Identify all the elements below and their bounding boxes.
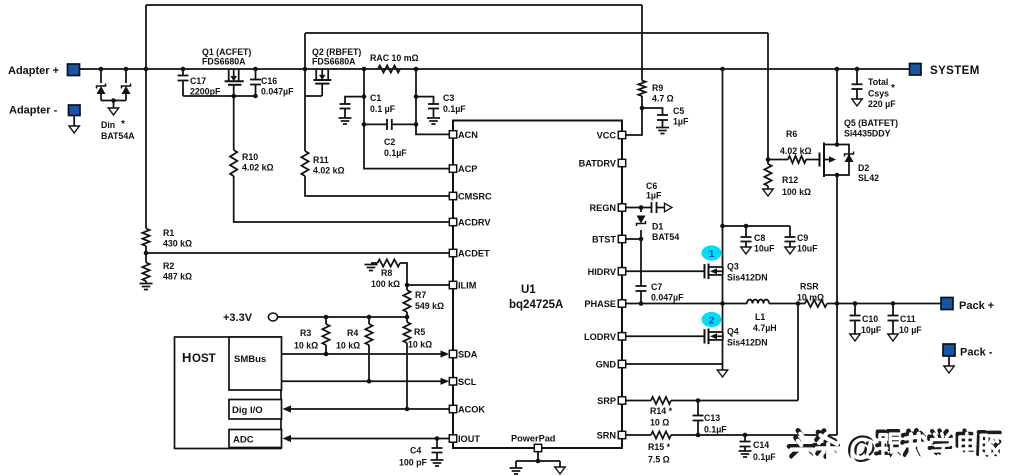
wire second top line from common-source node to R6 [305, 32, 768, 34]
svg-text:R7: R7 [415, 290, 426, 300]
block SMBus [229, 337, 282, 390]
wire main adapter rail [80, 68, 910, 70]
svg-text:SDA: SDA [458, 350, 478, 360]
pin number 2 bubble [702, 312, 722, 327]
svg-text:100 kΩ: 100 kΩ [371, 279, 400, 289]
wire RAC left sense vertical [363, 69, 365, 124]
pin REGN [618, 204, 625, 211]
wire HIDRV line [626, 270, 705, 272]
wire Q4 drain [722, 304, 724, 333]
wire R12 stub [767, 160, 769, 165]
svg-text:R6: R6 [786, 129, 797, 139]
pin HIDRV [618, 268, 625, 275]
wire SRN line [626, 434, 652, 436]
diode D2 SL42 [845, 154, 854, 162]
svg-text:ACP: ACP [458, 164, 477, 174]
wire Q5 drain from system rail [836, 69, 838, 145]
pin SRP [618, 397, 625, 404]
svg-text:SCL: SCL [458, 377, 477, 387]
wire SCL line [281, 380, 441, 382]
svg-text:Din: Din [101, 120, 115, 130]
wire RAC right sense vertical [415, 69, 417, 124]
svg-text:R5: R5 [414, 327, 425, 337]
wire vertical common-source node [304, 33, 306, 151]
wire BTST line [626, 238, 642, 240]
wire IOUT line [290, 438, 450, 440]
block HOST [175, 337, 282, 449]
svg-text:R8: R8 [381, 268, 392, 278]
svg-text:7.5 Ω: 7.5 Ω [648, 455, 670, 465]
svg-text:487 kΩ: 487 kΩ [163, 272, 192, 282]
svg-text:C9: C9 [797, 233, 808, 243]
svg-text:1: 1 [709, 248, 715, 260]
wire R6 right to Q5 gate [806, 159, 820, 161]
svg-text:C5: C5 [673, 106, 684, 116]
svg-text:0.1 µF: 0.1 µF [370, 104, 396, 114]
capacitor C4 [432, 447, 443, 449]
pin ILIM [449, 281, 456, 288]
wire VCC feed [626, 108, 643, 135]
wire C2 right [392, 123, 416, 125]
svg-text:10 µF: 10 µF [899, 325, 922, 335]
svg-text:10uF: 10uF [797, 244, 818, 254]
svg-text:549 kΩ: 549 kΩ [415, 301, 444, 311]
transistor Q3 [704, 264, 706, 278]
svg-text:IOUT: IOUT [458, 434, 480, 444]
svg-text:R2: R2 [163, 261, 174, 271]
block Dig I/O [229, 400, 282, 420]
diode D1 BAT54 [637, 216, 646, 224]
svg-text:R3: R3 [300, 328, 311, 338]
wire ACN line [416, 124, 450, 134]
svg-text:Si4435DDY: Si4435DDY [844, 129, 891, 139]
resistor R10 [230, 150, 237, 176]
pin BTST [618, 235, 625, 242]
svg-text:Q5 (BATFET): Q5 (BATFET) [844, 118, 898, 128]
svg-text:430 kΩ: 430 kΩ [163, 239, 192, 249]
wire vertical adapter-node to top line and down to R1/R2 [145, 5, 147, 229]
svg-text:OST: OST [192, 353, 216, 365]
wire Q1 gate line [183, 95, 256, 97]
svg-text:BATDRV: BATDRV [579, 159, 617, 169]
svg-text:0.047µF: 0.047µF [261, 87, 294, 97]
svg-text:10uF: 10uF [754, 244, 775, 254]
capacitor C16 [255, 69, 257, 80]
svg-text:10 kΩ: 10 kΩ [294, 341, 318, 351]
wire ILIM node to R7 to 3.3V rail [406, 285, 408, 290]
svg-text:0.1µF: 0.1µF [704, 425, 727, 435]
transistor Q4 [704, 329, 706, 343]
svg-text:4.02 kΩ: 4.02 kΩ [313, 166, 345, 176]
svg-text:10 mΩ: 10 mΩ [797, 293, 824, 303]
svg-text:C14: C14 [753, 440, 769, 450]
capacitor C2 [386, 119, 388, 130]
pin CMSRC [449, 192, 456, 199]
wire ACP line [364, 124, 450, 168]
svg-text:0.1µF: 0.1µF [384, 148, 407, 158]
wire Q3 drain vertical [722, 69, 724, 267]
svg-text:100 pF: 100 pF [399, 458, 427, 468]
resistor R5 [403, 322, 410, 343]
svg-text:@: @ [849, 432, 879, 467]
wire C14 branch [744, 435, 746, 442]
pin SCL [449, 378, 456, 385]
pin ACDRV [449, 218, 456, 225]
wire R6 left stub [768, 159, 788, 161]
capacitor C14 [740, 441, 751, 443]
svg-text:LODRV: LODRV [584, 332, 617, 342]
svg-text:4.7µH: 4.7µH [753, 323, 777, 333]
capacitor C1 [344, 103, 346, 105]
wire R3 branch [325, 317, 327, 324]
svg-text:ACDRV: ACDRV [458, 218, 491, 228]
svg-text:2200pF: 2200pF [190, 87, 221, 97]
svg-text:FDS6680A: FDS6680A [312, 57, 356, 67]
wire C2 left [364, 123, 387, 125]
svg-text:Q3: Q3 [727, 262, 739, 272]
svg-text:Adapter -: Adapter - [9, 105, 58, 117]
svg-text:U1: U1 [521, 284, 536, 296]
pin number 1 bubble [702, 245, 722, 260]
wire top feedback line from adapter node to R9/VCC [146, 4, 642, 6]
svg-text:1µF: 1µF [646, 191, 662, 201]
svg-text:Q2 (RBFET): Q2 (RBFET) [312, 47, 361, 57]
wire C8 stub [745, 226, 747, 237]
capacitor C10 [850, 315, 861, 317]
wire D1 vertical [640, 208, 642, 213]
wire R5 branch [406, 317, 408, 322]
svg-text:C16: C16 [261, 76, 277, 86]
pin IOUT [449, 435, 456, 442]
wire PHASE line [626, 303, 748, 305]
svg-text:Pack +: Pack + [959, 300, 994, 312]
capacitor C7 [636, 285, 647, 287]
wire R9 top [641, 5, 643, 81]
svg-text:C3: C3 [443, 93, 454, 103]
svg-text:0.1µF: 0.1µF [443, 104, 466, 114]
svg-text:CMSRC: CMSRC [458, 192, 492, 202]
capacitor C11 [888, 315, 899, 317]
resistor R11 [301, 151, 308, 176]
resistor R8 [378, 259, 401, 266]
wire BTST to C7 [640, 239, 642, 286]
svg-text:R15 *: R15 * [648, 442, 671, 452]
node +3.3V [268, 313, 277, 321]
svg-text:R1: R1 [163, 228, 174, 238]
capacitor C17 [182, 69, 184, 76]
resistor R12 [764, 164, 771, 186]
svg-text:R12: R12 [782, 175, 798, 185]
wire REGN line [626, 207, 652, 209]
svg-text:BAT54: BAT54 [652, 232, 679, 242]
wire R4 branch [368, 317, 370, 324]
svg-text:ACN: ACN [458, 130, 478, 140]
resistor R3 [322, 324, 329, 345]
svg-text:C8: C8 [754, 233, 765, 243]
svg-text:0.047µF: 0.047µF [651, 293, 684, 303]
wire ACOK line [290, 408, 450, 410]
wire R11 bottom to CMSRC [305, 176, 450, 196]
wire D2 loop [837, 145, 849, 176]
svg-text:R14 *: R14 * [650, 406, 673, 416]
resistor R4 [365, 324, 372, 345]
svg-text:Sis412DN: Sis412DN [727, 338, 768, 348]
terminal Adapter - [69, 105, 81, 116]
svg-text:ADC: ADC [233, 435, 254, 446]
terminal SYSTEM [910, 64, 922, 76]
svg-text:REGN: REGN [589, 203, 616, 213]
svg-text:ACDET: ACDET [458, 249, 490, 259]
svg-text:Sis412DN: Sis412DN [727, 273, 768, 283]
svg-text:D2: D2 [858, 163, 869, 173]
pin PHASE [618, 300, 625, 307]
svg-text:Q1 (ACFET): Q1 (ACFET) [202, 47, 251, 57]
svg-text:bq24725A: bq24725A [509, 299, 563, 311]
ground at R8 [365, 264, 378, 266]
wire C8 gnd stub [745, 242, 747, 248]
svg-text:Q4: Q4 [727, 327, 739, 337]
wire C6 to arrow [657, 207, 665, 209]
svg-text:Total: Total [868, 77, 888, 87]
wire C1 branch [345, 97, 364, 104]
svg-text:C10: C10 [862, 314, 878, 324]
resistor R2 [142, 263, 149, 282]
svg-text:10µF: 10µF [861, 325, 882, 335]
wire C9 stub [789, 226, 791, 237]
svg-text:10 kΩ: 10 kΩ [408, 340, 432, 350]
capacitor C3 [428, 103, 439, 105]
svg-text:SMBus: SMBus [234, 354, 266, 365]
resistor R7 [403, 290, 410, 312]
resistor R1 [142, 229, 149, 247]
resistor R6 [788, 156, 806, 163]
svg-text:220 µF: 220 µF [868, 99, 896, 109]
svg-text:ACOK: ACOK [458, 405, 485, 415]
svg-text:FDS6680A: FDS6680A [202, 57, 246, 67]
pin ACOK [449, 405, 456, 412]
svg-text:10 Ω: 10 Ω [650, 418, 669, 428]
resistor R9 [638, 81, 645, 97]
pin ACN [449, 131, 456, 138]
terminal Pack + [941, 298, 953, 310]
svg-text:C2: C2 [384, 137, 395, 147]
terminal Pack - [943, 344, 955, 356]
arrowhead SCL [441, 378, 450, 385]
svg-text:SRP: SRP [597, 396, 616, 406]
svg-text:L1: L1 [755, 312, 765, 322]
svg-text:100 kΩ: 100 kΩ [782, 187, 811, 197]
svg-text:4.7 Ω: 4.7 Ω [652, 94, 674, 104]
wire LODRV line [626, 335, 705, 337]
resistor RAC [378, 65, 400, 72]
svg-text:SL42: SL42 [858, 173, 879, 183]
capacitor Total Csys [852, 83, 863, 85]
svg-text:SYSTEM: SYSTEM [930, 65, 980, 77]
diode Din BAT54A [100, 69, 102, 83]
pin ACP [449, 165, 456, 172]
wire C9 gnd stub [789, 242, 791, 248]
svg-text:ILIM: ILIM [458, 281, 477, 291]
svg-text:R4: R4 [347, 328, 358, 338]
svg-text:C17: C17 [190, 76, 206, 86]
svg-text:PowerPad: PowerPad [511, 434, 555, 444]
svg-text:GND: GND [596, 360, 617, 370]
svg-text:VCC: VCC [597, 131, 617, 141]
pin PowerPad [534, 444, 541, 451]
svg-text:RSR: RSR [800, 282, 819, 292]
pin SRN [618, 431, 625, 438]
svg-text:Adapter +: Adapter + [8, 65, 59, 77]
wire SRP riser [797, 304, 799, 401]
svg-text:PHASE: PHASE [584, 299, 616, 309]
svg-text:4.02 kΩ: 4.02 kΩ [780, 146, 812, 156]
wire C5 branch [642, 108, 663, 115]
svg-text:4.02 kΩ: 4.02 kΩ [242, 163, 274, 173]
capacitor C9 [785, 236, 796, 238]
arrowhead ACOK [283, 405, 292, 412]
svg-text:*: * [891, 83, 895, 94]
wire C11 branch [892, 304, 894, 316]
wire C7 to phase [640, 291, 642, 304]
svg-text:*: * [121, 119, 125, 130]
wire Q3 source to phase [722, 275, 724, 304]
svg-text:BAT54A: BAT54A [101, 131, 135, 141]
capacitor C6 [651, 202, 653, 213]
wire SDA line [281, 353, 441, 355]
arrowhead SDA [441, 350, 450, 357]
wire C8/C9 rail [723, 225, 791, 227]
arrowhead IOUT [283, 435, 292, 442]
wire C4 branch [436, 439, 438, 449]
ground below R2 [140, 283, 153, 285]
terminal Adapter + [68, 64, 80, 76]
svg-text:R10: R10 [242, 152, 258, 162]
pin SDA [449, 350, 456, 357]
svg-text:H: H [182, 350, 191, 365]
ground arrow at Q4 source / GND [717, 370, 727, 377]
wire R10 chain to ACDRV [233, 96, 235, 150]
svg-text:C11: C11 [900, 314, 916, 324]
resistor R15 [651, 431, 671, 438]
wire C13 branch [697, 401, 699, 416]
pin LODRV [618, 333, 625, 340]
capacitor C5 [657, 114, 668, 116]
svg-text:Csys: Csys [868, 89, 889, 99]
svg-text:C4: C4 [410, 446, 421, 456]
ground arrow below Adapter - [73, 116, 75, 127]
block ADC [229, 430, 282, 448]
svg-text:C1: C1 [370, 93, 381, 103]
capacitor C13 [693, 415, 704, 417]
svg-text:Dig I/O: Dig I/O [232, 405, 263, 416]
pin BATDRV [618, 159, 625, 166]
wire GND line [626, 363, 723, 365]
svg-text:SRN: SRN [597, 431, 617, 441]
watermark toutiao text [789, 431, 813, 457]
pin VCC [618, 131, 625, 138]
svg-text:10 kΩ: 10 kΩ [336, 341, 360, 351]
op-amp U1 bq24725A IC body [453, 121, 622, 449]
wire Q4 source to gnd arrow [722, 340, 724, 370]
svg-text:+3.3V: +3.3V [223, 312, 253, 324]
pin ACDET [449, 249, 456, 256]
svg-text:R11: R11 [313, 155, 329, 165]
svg-text:C7: C7 [651, 282, 662, 292]
svg-text:0.1µF: 0.1µF [753, 452, 776, 462]
wire SRP line [626, 400, 652, 402]
svg-text:Pack -: Pack - [960, 347, 993, 359]
svg-text:2: 2 [709, 315, 715, 327]
wire Q5 source down to pack [836, 175, 838, 436]
wire C10 branch [854, 304, 856, 316]
svg-text:1µF: 1µF [673, 117, 689, 127]
svg-text:HIDRV: HIDRV [588, 267, 617, 277]
pin GND [618, 360, 625, 367]
svg-text:RAC 10 mΩ: RAC 10 mΩ [370, 53, 419, 63]
wire Q2 gate line [305, 95, 322, 97]
capacitor C8 [741, 236, 752, 238]
wire Csys stub [856, 69, 858, 84]
resistor R14 [651, 397, 671, 404]
inductor L1 [747, 300, 769, 304]
wire R6 node vertical [767, 33, 769, 160]
resistor RSR [805, 300, 827, 307]
svg-text:C13: C13 [704, 413, 720, 423]
wire C3 branch [416, 97, 434, 104]
svg-text:BTST: BTST [592, 235, 616, 245]
svg-text:D1: D1 [652, 222, 663, 232]
junction dots [99, 67, 104, 72]
wire +3.3V rail [278, 316, 408, 318]
wire R8 to ILIM [371, 262, 378, 264]
svg-text:C6: C6 [646, 181, 657, 191]
svg-text:R9: R9 [652, 83, 663, 93]
wire ACDET line [146, 252, 450, 254]
